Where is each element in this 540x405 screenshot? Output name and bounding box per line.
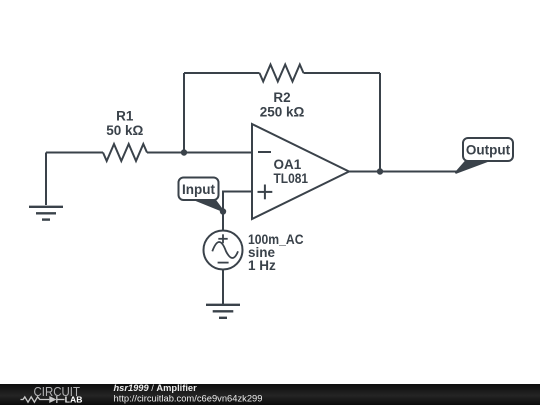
resistor R2 (260, 65, 304, 82)
svg-text:http://circuitlab.com/c6e9vn64: http://circuitlab.com/c6e9vn64zk299 (114, 393, 263, 404)
svg-text:Input: Input (182, 182, 215, 197)
CircuitLab logo (21, 384, 83, 405)
svg-text:50 kΩ: 50 kΩ (106, 123, 143, 138)
wire: source bottom to ground (222, 270, 224, 305)
ground (left) (29, 207, 63, 220)
resistor R1 (103, 144, 147, 161)
wire: R2 to right vertical (304, 72, 381, 74)
label R1 (106, 109, 143, 138)
flag Input (179, 178, 224, 212)
footer bar (0, 384, 540, 405)
op-amp OA1 (252, 124, 349, 219)
footer text (114, 383, 263, 405)
voltage source V1 (204, 231, 243, 270)
svg-text:R2: R2 (273, 90, 290, 105)
svg-text:hsr1999 / Amplifier: hsr1999 / Amplifier (114, 383, 198, 393)
node C (junction of Input flag and source) (220, 208, 226, 214)
wire: non-inverting input to source (223, 192, 252, 231)
wire: left vertical from R1 lead to ground (45, 153, 47, 206)
ground (bottom) (206, 305, 240, 318)
svg-text:R1: R1 (116, 109, 134, 124)
flag Output (456, 138, 514, 173)
svg-text:OA1: OA1 (274, 157, 302, 172)
wire: right vertical down to output node (379, 73, 381, 172)
svg-text:250 kΩ: 250 kΩ (260, 104, 305, 119)
label V1 value (248, 232, 304, 273)
svg-text:Output: Output (466, 143, 511, 158)
svg-text:TL081: TL081 (274, 171, 309, 186)
wire: op-amp output to Output flag (349, 171, 459, 173)
wire: top horizontal to R2 (184, 72, 260, 74)
label R2 (260, 90, 305, 119)
node A (junction of R1, R2, inverting input) (181, 149, 187, 155)
svg-text:LAB: LAB (65, 394, 83, 404)
label OA1 TL081 (274, 157, 309, 186)
svg-text:1 Hz: 1 Hz (248, 258, 276, 273)
wire: feedback vertical from node A up (183, 73, 185, 153)
wire: main horizontal to op-amp inverting input (46, 152, 252, 154)
node B (junction of feedback and output) (377, 168, 383, 174)
